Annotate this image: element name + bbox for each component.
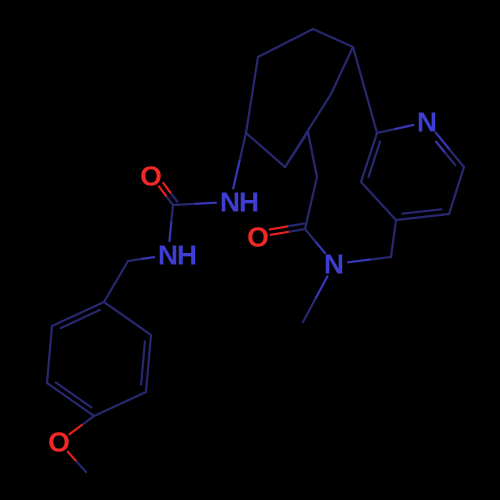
bond N2-CH3 (N-methyl) bbox=[303, 276, 327, 322]
bond C2-C3 (pyridine) bbox=[449, 167, 464, 214]
bond C6-N1 (pyridine) bbox=[377, 125, 413, 133]
double bond N1=C2 (pyridine) bbox=[436, 133, 464, 167]
bond CH2-C1ar (phenyl ipso) bbox=[104, 261, 128, 302]
atom label O1 (urea carbonyl oxygen) bbox=[140, 161, 162, 192]
bond C4-C5 (pyridine) bbox=[361, 182, 396, 220]
bond C1ar-C2ar (phenyl) bbox=[104, 302, 151, 335]
svg-text:O: O bbox=[48, 427, 70, 458]
svg-text:O: O bbox=[247, 222, 269, 253]
svg-text:O: O bbox=[140, 161, 162, 192]
svg-text:H: H bbox=[177, 240, 197, 271]
bond N3-C(=O) urea bbox=[173, 203, 216, 205]
bond urea C-N4 (urea NH) bbox=[169, 205, 173, 241]
bond C4ar-O3 (aryl ether) bbox=[69, 416, 94, 434]
svg-text:N: N bbox=[324, 249, 344, 280]
double bond C4ar=C5ar (phenyl) bbox=[47, 383, 94, 417]
double bond C3=C4 (pyridine) bbox=[396, 209, 449, 220]
svg-text:N: N bbox=[158, 240, 178, 271]
double bond C2ar=C3ar (phenyl) bbox=[141, 335, 151, 392]
bond C7a-C7g (ring edge) bbox=[246, 133, 285, 167]
bond N4-CH2 (benzylic link) bbox=[128, 257, 154, 261]
double bond C6ar=C1ar (phenyl) bbox=[52, 302, 104, 328]
wire bond C7b-C7c (cycloheptane ring edge) bbox=[258, 29, 313, 57]
double bond C=O (amide carbonyl) bbox=[270, 224, 305, 235]
bond CH2-N2 (amide nitrogen) bbox=[348, 257, 391, 262]
atom label N4-H (urea NH left) bbox=[158, 240, 197, 271]
bond C7e-C7d (ring edge) bbox=[331, 47, 353, 94]
bond O3-CH3 (methoxy) bbox=[68, 452, 86, 472]
wire bond C7d-C8-C8a bridge to pyridine C6 bbox=[353, 47, 377, 133]
bond C4-CH2 (benzylic link) bbox=[391, 220, 396, 257]
atom label O3 (methoxy oxygen) bbox=[48, 427, 70, 458]
bond amide C-CH2 (V2) bbox=[305, 177, 317, 229]
bond C3ar-C4ar (phenyl) bbox=[94, 392, 146, 416]
wire bond C7g-C7f-C7e (collinear ring edges) bbox=[285, 94, 331, 167]
bond C7f-C7g (ring edge) bbox=[285, 132, 308, 167]
bond C5ar-C6ar (phenyl) bbox=[47, 326, 52, 383]
svg-text:N: N bbox=[417, 107, 437, 138]
wire bond C7c-C7d (cycloheptane ring edge) bbox=[313, 29, 353, 47]
atom label N2 (amide nitrogen) bbox=[324, 249, 344, 280]
bond C7a-N3 (urea NH) bbox=[233, 133, 246, 188]
atom label N3-H (urea NH right) bbox=[220, 187, 259, 218]
atom label N1 (pyridine nitrogen) bbox=[417, 107, 437, 138]
svg-text:N: N bbox=[220, 187, 240, 218]
wire bond C7a-C7b (cycloheptane ring edge) bbox=[246, 57, 258, 133]
double bond C5=C6 (pyridine) bbox=[361, 133, 380, 182]
bond V2-C7f bbox=[308, 132, 317, 177]
double bond C=O (urea carbonyl) bbox=[159, 183, 178, 205]
atom label O2 (amide carbonyl oxygen) bbox=[247, 222, 269, 253]
bond N2-C(=O) amide bbox=[305, 229, 325, 253]
svg-text:H: H bbox=[239, 187, 259, 218]
